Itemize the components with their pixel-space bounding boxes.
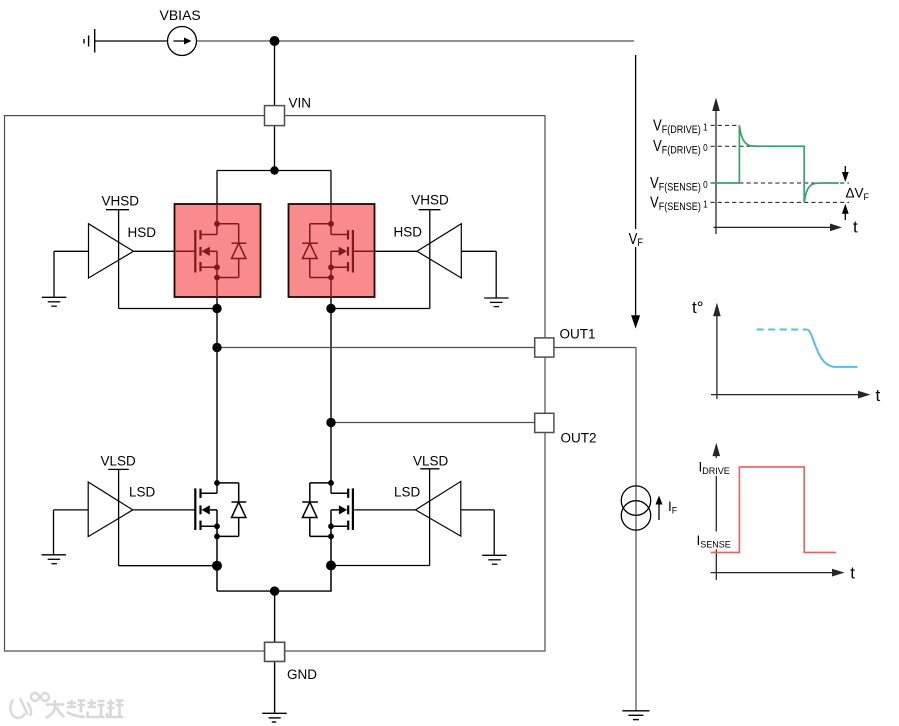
- svg-text:VHSD: VHSD: [411, 193, 449, 208]
- svg-text:t: t: [876, 386, 881, 405]
- svg-text:VBIAS: VBIAS: [160, 7, 201, 23]
- svg-text:VLSD: VLSD: [101, 454, 137, 469]
- svg-text:VHSD: VHSD: [102, 194, 140, 209]
- svg-text:t: t: [850, 563, 855, 582]
- svg-text:GND: GND: [287, 667, 317, 682]
- svg-text:t°: t°: [692, 298, 704, 317]
- svg-text:OUT1: OUT1: [560, 327, 596, 342]
- svg-text:LSD: LSD: [394, 485, 421, 500]
- svg-text:HSD: HSD: [394, 225, 423, 240]
- svg-text:OUT2: OUT2: [561, 431, 597, 446]
- svg-text:VIN: VIN: [289, 96, 312, 111]
- svg-text:VLSD: VLSD: [413, 454, 449, 469]
- svg-text:HSD: HSD: [128, 225, 157, 240]
- svg-text:LSD: LSD: [129, 485, 156, 500]
- svg-text:t: t: [853, 218, 858, 237]
